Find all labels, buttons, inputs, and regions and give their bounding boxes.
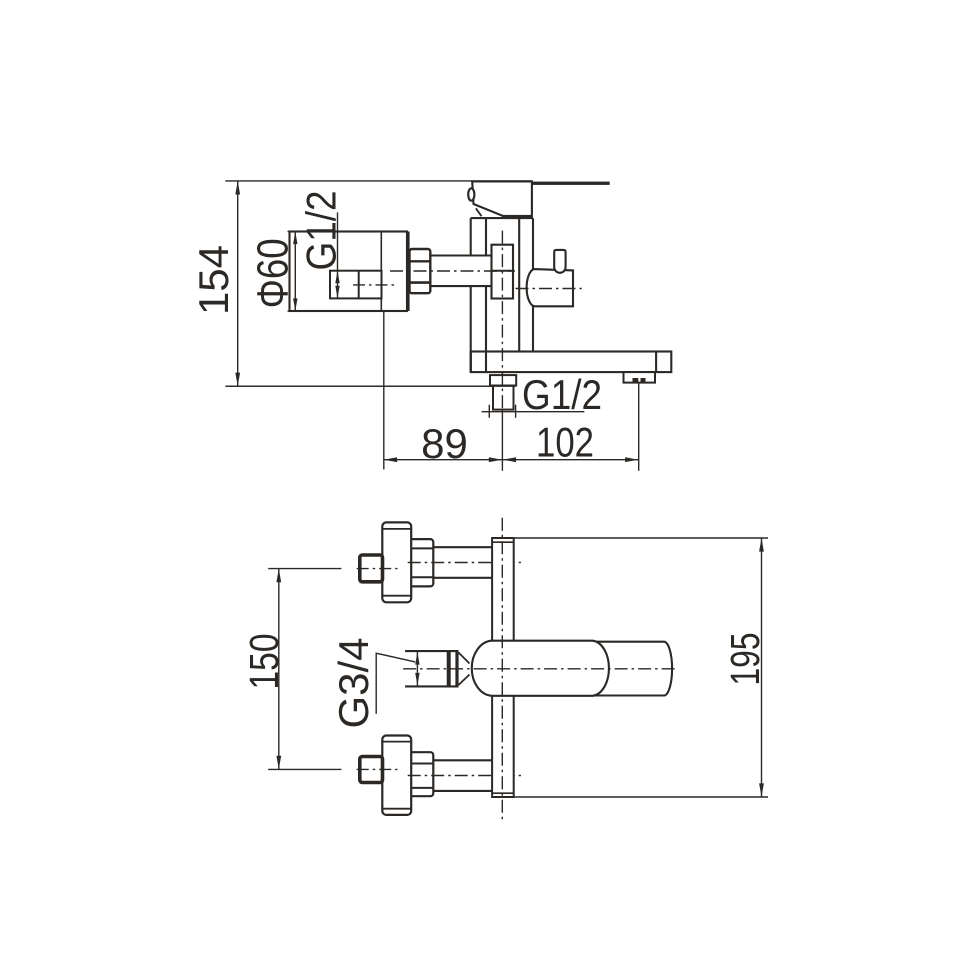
- extension line at aerator centre: [638, 383, 640, 470]
- bottom inlet centreline left: [357, 768, 398, 770]
- dimension 89/102 baseline: [384, 459, 639, 461]
- hex nut (side view): [410, 249, 431, 293]
- outlet collar: [490, 375, 516, 385]
- spout deck: [471, 352, 672, 373]
- dimension 150 extension top: [268, 568, 341, 570]
- top inlet hex nut (plan): [409, 539, 434, 586]
- bottom inlet square end: [360, 757, 383, 783]
- spout outer tube (plan): [593, 642, 672, 696]
- top inlet centreline left: [357, 568, 398, 570]
- outlet tube: [493, 386, 514, 410]
- body left outer edge: [470, 218, 472, 372]
- bottom inlet pipe: [430, 760, 492, 791]
- cartridge collar thick bar: [502, 215, 532, 219]
- wall flange thick right edge: [406, 232, 409, 312]
- G1/2 socket box: [330, 271, 382, 299]
- main horizontal centreline: [390, 270, 515, 272]
- G3/4 connector ring 2: [455, 651, 458, 686]
- dimension 150 line: [278, 569, 280, 770]
- svg-text:150: 150: [241, 634, 287, 690]
- svg-text:G3/4: G3/4: [330, 638, 377, 729]
- body top edge: [471, 217, 533, 219]
- svg-text:154: 154: [190, 245, 237, 315]
- top inlet square end: [360, 555, 383, 582]
- body right outer edge: [532, 218, 534, 351]
- wall plate (plan): [492, 538, 514, 797]
- dimension 195 extension top: [514, 537, 768, 539]
- dimension G3/4 arrow line: [416, 652, 418, 686]
- shower elbow body: [527, 269, 573, 306]
- dimension G1/2 (flange) line: [337, 212, 339, 298]
- plate centreline vertical: [501, 518, 503, 821]
- wall flange (side view): [290, 232, 408, 312]
- outlet G1/2 tick left: [488, 405, 490, 418]
- aerator box: [624, 372, 656, 383]
- dimension 195 arrow up: [759, 538, 764, 552]
- flange centre extension line (89 dim reference): [380, 232, 382, 312]
- G3/4 connector taper bottom: [459, 675, 470, 686]
- spout deck separator: [655, 352, 657, 373]
- body left inner edge: [485, 218, 487, 372]
- G3/4 connector ring 1: [447, 651, 451, 686]
- handle pivot ellipse: [468, 188, 474, 200]
- shower elbow knob: [554, 250, 565, 273]
- svg-text:195: 195: [722, 633, 768, 686]
- bottom inlet hex nut (plan): [409, 752, 434, 796]
- dimension 154 bottom extension line: [227, 385, 515, 387]
- extension line through outlet (154 bottom ref): [225, 385, 515, 387]
- valve box mid line: [492, 270, 514, 272]
- dimension G1/2 arrow up: [335, 271, 339, 284]
- svg-text:G1/2: G1/2: [522, 371, 602, 418]
- G1/2 socket divider: [358, 271, 360, 299]
- top inlet flange (plan): [382, 522, 411, 602]
- top inlet centreline right: [408, 562, 521, 564]
- dimension 154 arrow up: [235, 181, 240, 195]
- spout capsule (plan): [472, 641, 609, 696]
- valve cartridge box: [492, 245, 514, 299]
- wall supply pipe: [431, 256, 492, 287]
- bottom inlet centreline right: [408, 775, 521, 777]
- arrow right (102): [625, 457, 639, 462]
- dimension 195 extension bottom: [514, 796, 768, 798]
- dimension Phi60 arrow down: [293, 298, 297, 311]
- body right inner edge: [518, 218, 520, 351]
- dimension Phi60 line: [294, 232, 296, 312]
- arrows middle (89/102): [489, 457, 503, 462]
- aerator marks: [633, 378, 639, 382]
- dimension 195 line: [761, 538, 763, 797]
- handle body: [472, 181, 532, 216]
- dimension 154 vertical line: [237, 181, 239, 386]
- G3/4 connector taper top: [459, 653, 470, 664]
- extension line at outlet centre: [501, 410, 503, 471]
- dimension 150 arrow up: [276, 569, 281, 583]
- spout centreline: [403, 668, 678, 670]
- dimension G1/2 arrow down: [335, 286, 339, 299]
- G3/4 leader line: [376, 653, 415, 714]
- svg-text:Φ60: Φ60: [249, 238, 298, 308]
- handle inner diagonal: [476, 208, 482, 216]
- dimension Phi60 arrow up: [293, 232, 297, 245]
- body vertical centreline: [501, 231, 503, 411]
- handle lever bar: [532, 182, 610, 185]
- deck left column lines: [470, 352, 472, 373]
- bottom inlet flange (plan): [382, 736, 411, 815]
- outlet G1/2 tick right: [515, 405, 517, 418]
- dimension 150 arrow down: [276, 756, 281, 770]
- dimension 195 arrow down: [759, 783, 764, 797]
- svg-text:G1/2: G1/2: [298, 191, 345, 271]
- dimension 154 top extension line: [225, 180, 532, 182]
- top inlet pipe: [430, 547, 492, 578]
- G3/4 connector pipe: [405, 650, 458, 652]
- svg-text:102: 102: [536, 419, 594, 466]
- elbow centreline: [516, 288, 582, 290]
- outlet G1/2 leader line: [482, 411, 585, 413]
- G1/2 socket centreline: [353, 284, 395, 286]
- svg-text:89: 89: [421, 420, 468, 467]
- dimension 150 extension bottom: [268, 768, 341, 770]
- arrow left (89): [384, 457, 398, 462]
- dimension 154 arrow down: [235, 373, 240, 387]
